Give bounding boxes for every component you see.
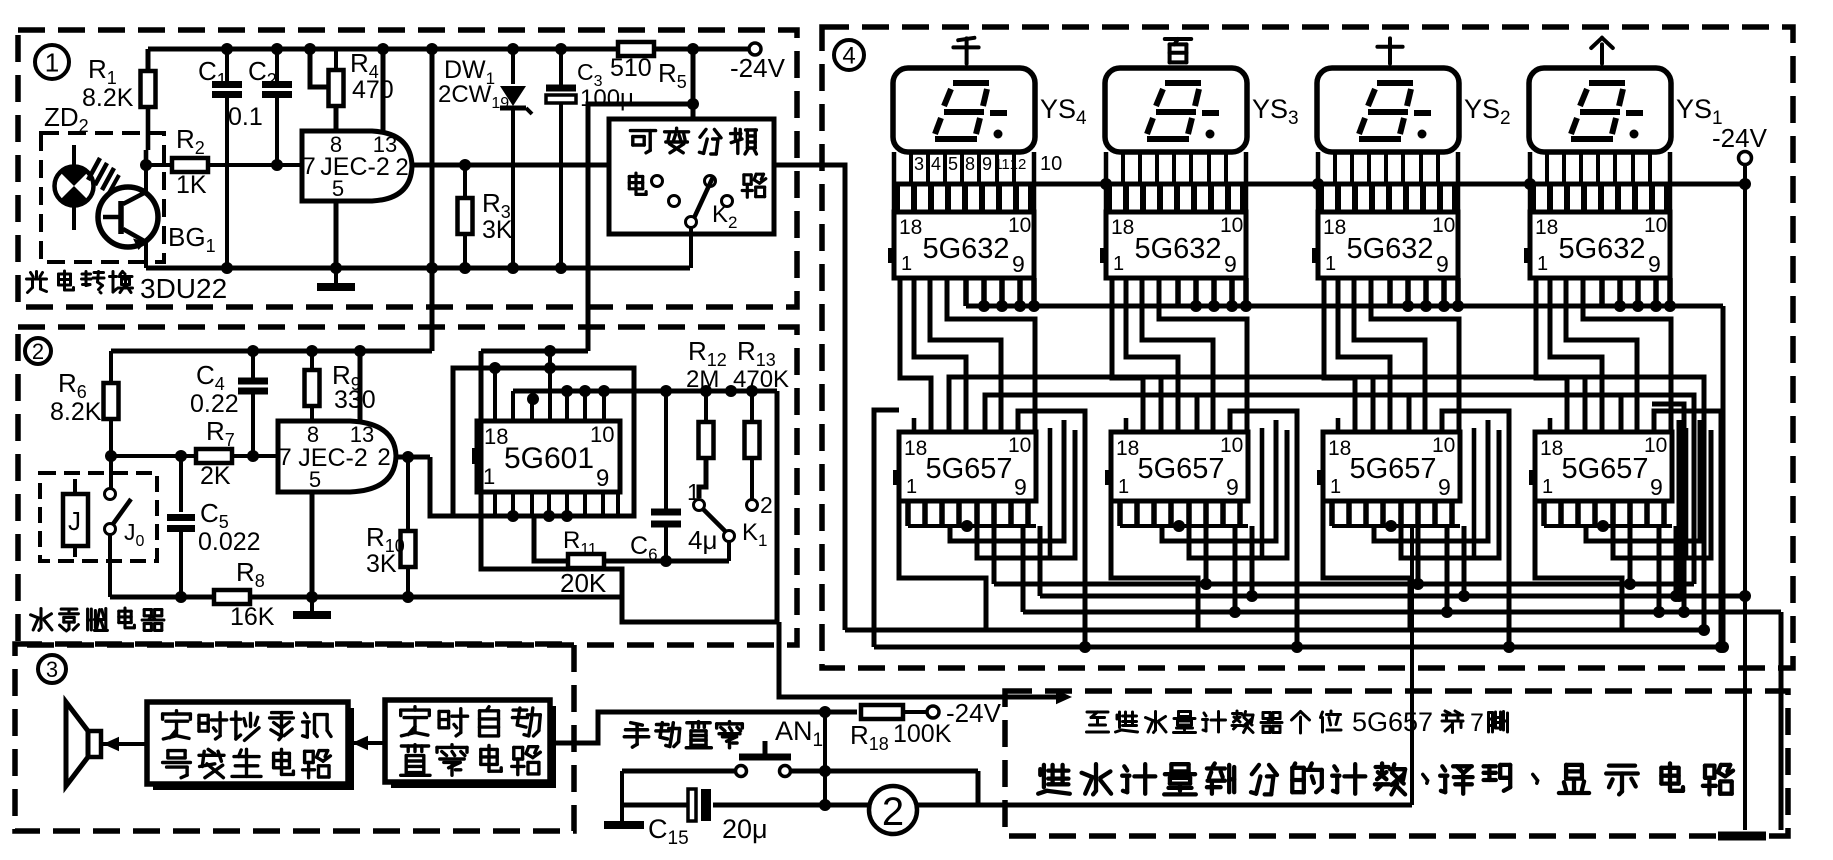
svg-text:10: 10 bbox=[1040, 153, 1062, 175]
carry wire B col1 bbox=[985, 395, 1197, 432]
bottom bus section2 bbox=[110, 595, 433, 600]
svg-text:18: 18 bbox=[1323, 216, 1346, 239]
svg-text:18: 18 bbox=[1328, 437, 1351, 460]
marker circle 3 bbox=[38, 655, 66, 683]
display YS3 bbox=[1105, 68, 1247, 152]
display pins YS2 bbox=[1321, 152, 1455, 212]
svg-text:1: 1 bbox=[1542, 476, 1553, 498]
5G657 bottom pins (thousands) bbox=[908, 501, 1036, 532]
display YS4 bbox=[893, 68, 1035, 152]
wire gate2 output route bbox=[430, 457, 453, 516]
5G632 staircase wires (thousands) bbox=[900, 278, 1035, 432]
IC 5G657 (units) bbox=[1529, 432, 1672, 501]
svg-text:1: 1 bbox=[1113, 253, 1124, 275]
marker circle 1 bbox=[35, 45, 69, 79]
switch K2 bbox=[652, 176, 738, 233]
5G657 top stub (hundreds) bbox=[1124, 418, 1129, 432]
node dot after R5 bbox=[687, 43, 699, 55]
svg-text:9: 9 bbox=[1438, 474, 1451, 500]
op-amp U1 JEC-2 bbox=[302, 131, 412, 201]
svg-text:16K: 16K bbox=[230, 603, 275, 631]
resistor R3 bbox=[458, 159, 513, 274]
svg-text:5: 5 bbox=[948, 154, 958, 174]
svg-text:1: 1 bbox=[1537, 253, 1548, 275]
IC 5G632 (thousands) bbox=[888, 212, 1034, 278]
block: timing record signal generator bbox=[147, 702, 348, 784]
svg-text:0.1: 0.1 bbox=[228, 103, 263, 131]
hook wires below 5G657 (thousands) bbox=[899, 420, 1075, 630]
resistor R11 bbox=[560, 527, 607, 598]
5G657 bottom pins (hundreds) bbox=[1120, 501, 1248, 532]
svg-text:470: 470 bbox=[352, 76, 394, 104]
svg-text:12: 12 bbox=[1010, 156, 1027, 173]
extra right nest wires bbox=[1652, 404, 1690, 618]
resistor R9 bbox=[305, 351, 376, 421]
wire to reset arrow bbox=[779, 622, 1072, 704]
svg-text:1: 1 bbox=[1330, 476, 1341, 498]
wire to 5G601 from section1 bbox=[588, 104, 693, 351]
label YS3 bbox=[1252, 94, 1299, 129]
block box shadow 1 bbox=[153, 708, 354, 790]
hook to bus612 bbox=[1021, 526, 1026, 612]
ground (section2) bbox=[293, 597, 331, 615]
hook to bus584 (units) bbox=[1624, 526, 1636, 590]
hook to bus596 (tens) bbox=[1458, 526, 1470, 602]
bus y584 bbox=[994, 582, 1694, 587]
IC 5G657 (tens) bbox=[1317, 432, 1460, 501]
wire R11 row bbox=[534, 516, 729, 561]
right nest vertical (hundreds) bbox=[1260, 428, 1265, 558]
relay J dashed box bbox=[40, 473, 157, 561]
IC 5G632 (hundreds) bbox=[1100, 212, 1246, 278]
5G632 bus pins (hundreds) bbox=[1178, 278, 1252, 312]
svg-text:10: 10 bbox=[1432, 214, 1455, 237]
5G632 bus pins (tens) bbox=[1390, 278, 1464, 312]
wire R1 bottom to node bbox=[140, 107, 152, 171]
column right link (thousands) bbox=[1018, 411, 1091, 653]
label YS4 bbox=[1040, 94, 1087, 129]
label manual reset bbox=[624, 722, 742, 748]
svg-text:5G601: 5G601 bbox=[504, 442, 594, 475]
op-amp U2 JEC-2 bbox=[278, 421, 396, 492]
node R6/R7 bbox=[105, 450, 117, 489]
hook to bus612 (units) bbox=[1653, 526, 1665, 618]
svg-text:1: 1 bbox=[483, 464, 495, 489]
wire K2 common down bbox=[689, 227, 693, 268]
wire J0 down bbox=[108, 534, 112, 597]
section 3 dashed border (timing blocks) bbox=[15, 644, 574, 831]
svg-text:2: 2 bbox=[760, 492, 773, 518]
svg-text:470K: 470K bbox=[733, 366, 789, 393]
capacitor C4 bbox=[190, 351, 268, 462]
svg-text:0.022: 0.022 bbox=[198, 528, 261, 556]
svg-text:10: 10 bbox=[1220, 214, 1243, 237]
header 十 bbox=[1377, 38, 1402, 63]
arrow between blocks bbox=[348, 736, 385, 750]
wire gate2 output bbox=[396, 455, 430, 460]
svg-text:8.2K: 8.2K bbox=[82, 84, 134, 112]
svg-text:-24V: -24V bbox=[946, 698, 1002, 728]
svg-text:9: 9 bbox=[1014, 474, 1027, 500]
svg-text:18: 18 bbox=[1116, 437, 1139, 460]
svg-text:9: 9 bbox=[1012, 251, 1025, 277]
relay coil J bbox=[63, 479, 88, 557]
display YS2 bbox=[1317, 68, 1459, 152]
section 2 dashed border (pump relay) bbox=[18, 327, 797, 645]
svg-text:9: 9 bbox=[596, 465, 609, 492]
wire counter reset drop bbox=[1410, 526, 1414, 805]
display YS1 bbox=[1529, 68, 1671, 152]
bus y630 bbox=[845, 624, 1710, 636]
capacitor C6 bbox=[630, 385, 717, 567]
display pins YS1 bbox=[1533, 152, 1667, 212]
IC U3 5G601 bbox=[472, 421, 620, 492]
bus y647 bbox=[874, 645, 1723, 650]
terminal -24V mid bbox=[927, 698, 1002, 728]
wire block2 to AN1 node bbox=[550, 712, 857, 743]
svg-text:3: 3 bbox=[914, 154, 924, 174]
label ZD2 bbox=[44, 102, 89, 136]
svg-text:5G657: 5G657 bbox=[1352, 707, 1433, 737]
svg-text:4μ: 4μ bbox=[688, 525, 717, 555]
node gate2 out bbox=[402, 451, 414, 463]
carry wire B col2 bbox=[1197, 395, 1409, 432]
node dot pin13 wire bbox=[377, 43, 389, 55]
resistor R13 bbox=[733, 336, 789, 499]
hook wires below 5G657 (tens) bbox=[1323, 420, 1499, 630]
bottom-right dashed box bbox=[1005, 691, 1788, 836]
terminal -24V right bbox=[1712, 123, 1768, 184]
label 0.1 bbox=[228, 103, 263, 131]
diode DW1 2CW19 bbox=[438, 43, 532, 274]
display corner wires YS4 bbox=[894, 152, 1034, 212]
svg-text:7: 7 bbox=[302, 153, 315, 180]
col4 carry closure B bbox=[1621, 395, 1694, 584]
svg-text:7: 7 bbox=[1470, 709, 1484, 737]
5G657 bottom pins (units) bbox=[1544, 501, 1672, 532]
hook to bus584 (tens) bbox=[1412, 526, 1424, 590]
svg-text:1: 1 bbox=[45, 47, 59, 77]
IC 5G632 (tens) bbox=[1312, 212, 1458, 278]
svg-text:9: 9 bbox=[1648, 251, 1661, 277]
carry wire A col1 bbox=[949, 377, 1161, 432]
block box shadow 2 bbox=[391, 706, 556, 788]
switch J0 bbox=[105, 489, 145, 551]
svg-text:2: 2 bbox=[882, 790, 904, 834]
label guangdianzhuanhuan bbox=[27, 271, 133, 293]
svg-text:9: 9 bbox=[1226, 474, 1239, 500]
svg-text:18: 18 bbox=[1111, 216, 1134, 239]
svg-text:100K: 100K bbox=[893, 720, 952, 748]
wire C15 row bbox=[622, 771, 1412, 805]
label 3DU22 bbox=[140, 273, 227, 304]
speaker bbox=[66, 702, 147, 786]
svg-text:5G632: 5G632 bbox=[1134, 233, 1221, 265]
col4 carry closure A bbox=[1585, 377, 1704, 630]
right nest vertical (thousands) bbox=[1048, 428, 1053, 558]
svg-text:9: 9 bbox=[1436, 251, 1449, 277]
svg-text:10: 10 bbox=[1008, 214, 1031, 237]
hook to bus596 bbox=[1038, 526, 1043, 596]
ground (section1 gate) bbox=[317, 268, 355, 287]
display pins YS4 bbox=[897, 152, 1031, 212]
svg-text:-24V: -24V bbox=[1712, 123, 1768, 153]
ZD2 dashed box bbox=[41, 133, 164, 262]
svg-text:1K: 1K bbox=[176, 171, 207, 199]
capacitor C5 bbox=[167, 456, 261, 603]
node dot C1 bbox=[221, 43, 233, 55]
top bus -24V rail bbox=[148, 47, 749, 52]
resistor R6 bbox=[50, 351, 119, 456]
resistor R5 510 bbox=[610, 42, 687, 92]
resistor R8 bbox=[214, 557, 275, 631]
svg-text:5G657: 5G657 bbox=[1349, 453, 1436, 485]
ground (right) bbox=[1718, 832, 1766, 841]
wire nest top link bbox=[481, 349, 588, 354]
segment data bus bbox=[966, 306, 1729, 653]
bus2 to bottom corner bbox=[433, 595, 622, 600]
svg-text:2: 2 bbox=[32, 339, 44, 364]
carry wire A col2 bbox=[1161, 377, 1373, 432]
hook wires below 5G657 (units) bbox=[1535, 420, 1711, 630]
svg-text:J: J bbox=[68, 506, 81, 536]
display pins YS3 bbox=[1109, 152, 1243, 212]
svg-text:18: 18 bbox=[904, 437, 927, 460]
hook to bus584 (hundreds) bbox=[1200, 526, 1212, 590]
svg-text:5G632: 5G632 bbox=[1558, 233, 1645, 265]
top bus section2 bbox=[111, 349, 432, 354]
light rays bbox=[88, 158, 119, 193]
switch K1 bbox=[687, 479, 773, 561]
wire AN1 to C15 line bbox=[976, 771, 981, 805]
column right link (units) bbox=[1654, 411, 1727, 653]
svg-text:3: 3 bbox=[46, 657, 58, 682]
svg-text:5G657: 5G657 bbox=[1137, 453, 1224, 485]
svg-text:11: 11 bbox=[994, 156, 1010, 173]
terminal -24V top bbox=[699, 43, 786, 83]
resistor R4 bbox=[329, 48, 394, 106]
svg-text:JEC-2: JEC-2 bbox=[320, 153, 389, 181]
right nest vertical (tens) bbox=[1472, 428, 1477, 558]
wire pin13 bbox=[381, 49, 386, 131]
svg-text:5G632: 5G632 bbox=[1346, 233, 1433, 265]
display corner wires YS2 bbox=[1318, 152, 1458, 212]
wire 5G601 to bottom route bbox=[481, 351, 779, 622]
node dots bus2 bbox=[247, 345, 366, 357]
svg-text:18: 18 bbox=[1535, 216, 1558, 239]
5G632 staircase wires (tens) bbox=[1324, 278, 1459, 432]
phototransistor BG1 bbox=[98, 165, 158, 268]
svg-text:1: 1 bbox=[1325, 253, 1336, 275]
wire AN1 row bbox=[622, 712, 978, 811]
column right link (hundreds) bbox=[1230, 411, 1303, 653]
svg-text:18: 18 bbox=[899, 216, 922, 239]
signal entry from divider bbox=[774, 165, 845, 630]
ground (C15) bbox=[604, 805, 644, 825]
svg-text:1: 1 bbox=[687, 479, 700, 505]
5G657 top stub (units) bbox=[1548, 418, 1553, 432]
wire to divider box bbox=[687, 49, 699, 119]
svg-text:9: 9 bbox=[1224, 251, 1237, 277]
hook to bus584 (thousands) bbox=[992, 526, 997, 584]
bus y596 bbox=[1040, 594, 1745, 599]
svg-text:2: 2 bbox=[395, 154, 408, 181]
caption main bbox=[1038, 763, 1733, 794]
node R18 bbox=[819, 706, 831, 718]
wire pin5 gate2 bbox=[306, 492, 318, 603]
resistor R12 bbox=[686, 336, 727, 498]
display corner wires YS3 bbox=[1106, 152, 1246, 212]
push button AN1 bbox=[736, 716, 824, 777]
wire pin13 gate2 bbox=[358, 351, 363, 421]
5G601 bottom rail bbox=[453, 514, 634, 519]
resistor R2 bbox=[146, 124, 302, 199]
svg-text:1: 1 bbox=[1118, 476, 1129, 498]
node rail mid bbox=[725, 385, 737, 397]
carry wire A col3 bbox=[1373, 377, 1585, 432]
svg-text:5G632: 5G632 bbox=[922, 233, 1009, 265]
5G632 bus pins (units) bbox=[1602, 278, 1676, 312]
5G657 top stub (tens) bbox=[1336, 418, 1341, 432]
header 个 bbox=[1591, 38, 1613, 64]
svg-text:330: 330 bbox=[334, 386, 376, 414]
label YS2 bbox=[1464, 94, 1511, 129]
display common bus bbox=[894, 178, 1751, 190]
IC 5G657 (thousands) bbox=[893, 432, 1036, 501]
5G601 top pins bbox=[489, 362, 610, 421]
resistor R18 bbox=[850, 705, 952, 754]
capacitor C2 bbox=[248, 49, 292, 171]
wire jog to R4 bbox=[310, 49, 331, 87]
column right link (tens) bbox=[1442, 411, 1515, 653]
5G632 staircase wires (hundreds) bbox=[1112, 278, 1247, 432]
resistor R10 bbox=[366, 457, 416, 603]
5G601 bottom pins bbox=[495, 492, 618, 522]
svg-text:4: 4 bbox=[842, 43, 855, 70]
capacitor C3 100u bbox=[546, 43, 634, 274]
svg-text:4: 4 bbox=[931, 154, 941, 174]
svg-text:8.2K: 8.2K bbox=[50, 398, 102, 426]
svg-text:3K: 3K bbox=[482, 216, 513, 244]
wire R4 to pin8 bbox=[334, 106, 339, 131]
svg-text:5: 5 bbox=[309, 467, 321, 492]
wire gate1 output bbox=[412, 163, 609, 168]
svg-text:510: 510 bbox=[610, 54, 652, 82]
wire pin5 to ground bus bbox=[330, 201, 342, 274]
label BG1 bbox=[168, 222, 216, 256]
svg-text:1: 1 bbox=[901, 253, 912, 275]
node dot R4 feed bbox=[304, 43, 316, 55]
header 千 bbox=[953, 38, 978, 64]
svg-text:3DU22: 3DU22 bbox=[140, 273, 227, 304]
svg-text:1: 1 bbox=[906, 476, 917, 498]
capacitor C1 bbox=[198, 49, 242, 274]
resistor R7 bbox=[111, 416, 278, 490]
label shuibeng jidianqi bbox=[31, 608, 164, 631]
svg-text:2K: 2K bbox=[200, 462, 231, 490]
hook to bus596 (units) bbox=[1670, 526, 1682, 602]
hook wires below 5G657 (hundreds) bbox=[1111, 420, 1287, 630]
hook to bus612 (tens) bbox=[1441, 526, 1453, 618]
svg-text:2M: 2M bbox=[686, 366, 719, 393]
wire -24V down right side bbox=[1739, 184, 1751, 830]
svg-text:3K: 3K bbox=[366, 550, 397, 578]
label YS1 bbox=[1676, 94, 1723, 129]
svg-text:-24V: -24V bbox=[730, 53, 786, 83]
svg-text:20K: 20K bbox=[560, 568, 607, 598]
section 4 dashed border (counter/display) bbox=[822, 27, 1793, 668]
marker circle 2 (section 2) bbox=[25, 338, 51, 364]
wire R1 top bbox=[146, 49, 151, 72]
node C5 bbox=[175, 450, 187, 462]
svg-text:18: 18 bbox=[1540, 437, 1563, 460]
header 百 bbox=[1165, 39, 1191, 62]
pin number row bbox=[914, 153, 1062, 175]
node arch bbox=[544, 345, 556, 421]
left nest stub bbox=[874, 410, 899, 647]
svg-text:7: 7 bbox=[278, 444, 291, 471]
resistor R1 bbox=[82, 54, 156, 112]
5G657 top stub (thousands) bbox=[912, 418, 917, 432]
right nest vertical (units) bbox=[1684, 428, 1689, 558]
hook to bus612 (hundreds) bbox=[1229, 526, 1241, 618]
IC 5G657 (hundreds) bbox=[1105, 432, 1248, 501]
bottom bus section1 bbox=[146, 266, 690, 271]
wire arch over 5G601 bbox=[453, 368, 634, 516]
bus y612 bbox=[1023, 612, 1781, 830]
block: timing auto reset bbox=[385, 700, 550, 782]
variable frequency divider box bbox=[609, 119, 774, 234]
section 1 dashed border (photoelectric conversion) bbox=[18, 30, 797, 307]
node dot C2 bbox=[271, 43, 283, 55]
5G657 bottom pins (tens) bbox=[1332, 501, 1460, 532]
svg-text:8: 8 bbox=[965, 154, 975, 174]
capacitor C15 bbox=[648, 789, 768, 849]
svg-text:9: 9 bbox=[982, 154, 992, 174]
marker circle 4 bbox=[834, 40, 864, 70]
hook to bus596 (hundreds) bbox=[1246, 526, 1258, 602]
wire x432 vertical bbox=[426, 43, 438, 351]
big circled 2 overlay bbox=[869, 786, 917, 834]
svg-text:5G657: 5G657 bbox=[925, 453, 1012, 485]
svg-text:20μ: 20μ bbox=[722, 814, 768, 844]
svg-text:10: 10 bbox=[1644, 214, 1667, 237]
carry wire B col3 bbox=[1409, 395, 1621, 432]
IC 5G632 (units) bbox=[1524, 212, 1670, 278]
photodiode ZD2 detail bbox=[55, 145, 94, 230]
svg-text:5G657: 5G657 bbox=[1561, 453, 1648, 485]
svg-text:9: 9 bbox=[1650, 474, 1663, 500]
svg-text:5: 5 bbox=[332, 176, 344, 201]
svg-text:0.22: 0.22 bbox=[190, 390, 239, 418]
svg-text:2: 2 bbox=[377, 444, 390, 471]
5G632 bus pins (thousands) bbox=[966, 278, 1040, 312]
wire top rail to K1 zone bbox=[513, 391, 777, 622]
display corner wires YS1 bbox=[1530, 152, 1670, 212]
label to-counter-pin7 bbox=[1087, 707, 1508, 737]
5G632 staircase wires (units) bbox=[1536, 278, 1671, 432]
wire down right of section2 bbox=[620, 597, 625, 622]
